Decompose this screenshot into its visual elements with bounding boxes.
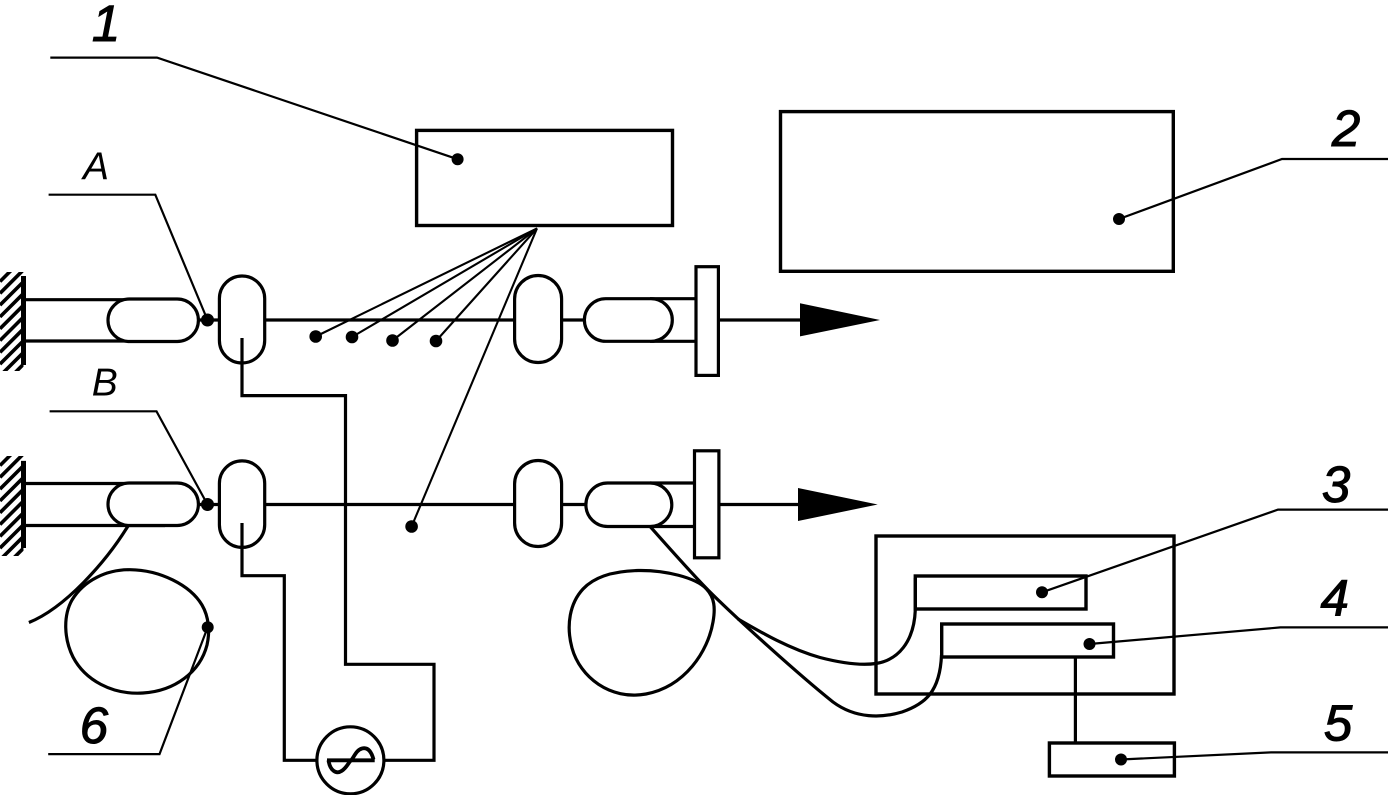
box 1 (photodetector unit) (417, 130, 673, 225)
svg-text:4: 4 (1321, 570, 1349, 627)
svg-text:A: A (81, 146, 109, 189)
wall fixed support row 1 (0, 258, 24, 388)
stadium A2 (fiber splice row 2) (108, 483, 198, 526)
box 3 (915, 576, 1086, 609)
fiber loop right (569, 570, 714, 695)
stadium D1 row 1 (584, 299, 672, 342)
output line row 2 (719, 503, 800, 506)
wall fixed support row 2 (0, 442, 24, 572)
node A junction dot row 1 (201, 314, 214, 327)
svg-text:B: B (92, 361, 118, 404)
leader 3 (1042, 510, 1388, 593)
sine generator circle (317, 727, 384, 794)
svg-text:1: 1 (92, 0, 120, 52)
fiber curve from stadium A2 to lower left (29, 526, 128, 623)
leader 1 (50, 58, 457, 160)
svg-text:3: 3 (1322, 456, 1350, 513)
tube row 1 (22, 300, 165, 341)
fiber line row 2 (198, 503, 586, 506)
stadium A1 (fiber splice row 1) (108, 299, 198, 342)
stadium D2 row 2 (586, 483, 672, 527)
box 5 (1049, 743, 1174, 776)
sine symbol (327, 748, 375, 772)
leader 6 (48, 627, 208, 754)
connector box4 to box5 (1074, 657, 1077, 743)
stadium D1 extension to flange row 1 (650, 299, 698, 342)
output line row 1 (718, 318, 802, 321)
phase modulator B1 row 1 (219, 276, 264, 363)
box 4 (942, 624, 1114, 657)
flange E2 row 2 (695, 451, 719, 558)
oval C2 row 2 (515, 461, 562, 547)
leader B (50, 411, 208, 504)
leader 2 (1119, 159, 1388, 219)
stadium D2 extension to flange row 2 (650, 483, 697, 527)
leader A (49, 195, 208, 320)
node B junction dot row 2 (201, 498, 214, 511)
fiber F1 branch to box 3 (738, 578, 915, 664)
fan dots (309, 330, 442, 533)
tube row 2 (22, 484, 165, 526)
output arrow row 2 (798, 488, 878, 521)
big box (receiver unit) (876, 536, 1174, 694)
phase modulator B2 row 2 (219, 461, 264, 548)
svg-text:6: 6 (80, 697, 109, 754)
flange E1 row 1 (696, 267, 718, 376)
leader 4 (1090, 627, 1388, 644)
box 2 (781, 112, 1174, 272)
wire W1 modulator row1 to generator (242, 338, 434, 760)
fiber F2 from stadium D2 to box 4 (651, 527, 942, 716)
fiber line row 1 (198, 318, 584, 321)
output arrow row 1 (800, 303, 880, 336)
svg-text:2: 2 (1331, 100, 1360, 157)
fan lines from box 1 (316, 228, 537, 526)
fiber loop 6 (left) (66, 570, 209, 693)
svg-text:5: 5 (1324, 695, 1353, 752)
wire W2 modulator row2 to generator (242, 523, 318, 760)
leader 5 (1121, 752, 1388, 759)
oval C1 row 1 (515, 276, 562, 363)
